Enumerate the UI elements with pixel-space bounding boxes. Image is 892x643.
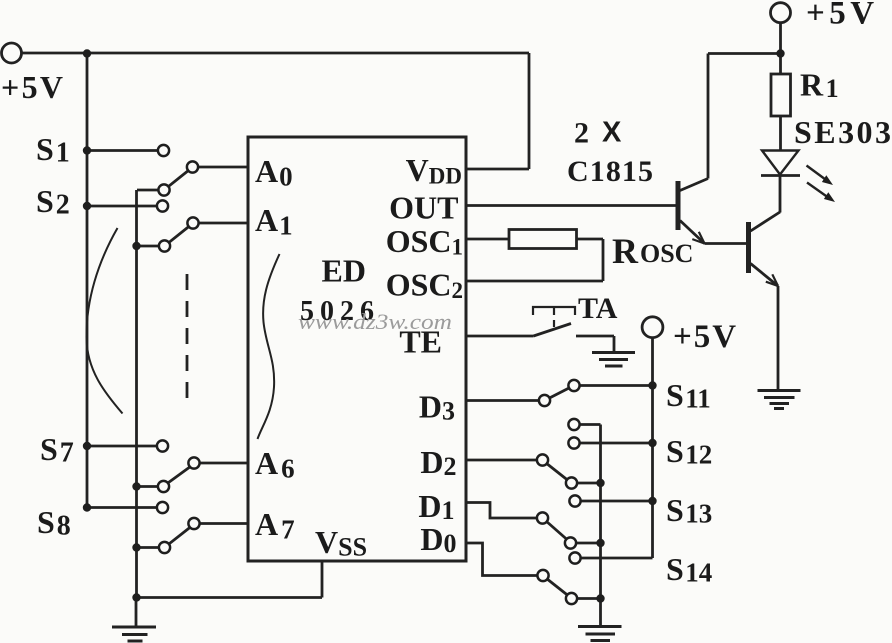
svg-text:A7: A7	[255, 506, 295, 545]
svg-text:S2: S2	[36, 183, 70, 221]
svg-text:VSS: VSS	[315, 524, 367, 562]
svg-text:S13: S13	[666, 492, 712, 529]
svg-text:D3: D3	[419, 389, 455, 426]
svg-text:+5V: +5V	[806, 0, 879, 32]
svg-text:S7: S7	[40, 431, 74, 469]
svg-text:A0: A0	[255, 153, 293, 192]
svg-text:TA: TA	[578, 292, 618, 325]
svg-text:www.dz3w.com: www.dz3w.com	[298, 309, 452, 334]
svg-text:+5V: +5V	[673, 319, 738, 355]
svg-text:S14: S14	[666, 551, 712, 588]
svg-text:ED: ED	[322, 253, 366, 289]
svg-text:OUT: OUT	[389, 190, 458, 226]
svg-text:SE303: SE303	[794, 114, 891, 150]
svg-text:2: 2	[574, 117, 589, 150]
svg-text:OSC: OSC	[640, 239, 693, 268]
svg-text:D1: D1	[418, 488, 454, 525]
svg-text:D0: D0	[420, 521, 456, 558]
svg-text:A6: A6	[255, 445, 295, 484]
svg-text:VDD: VDD	[406, 152, 462, 189]
svg-text:D2: D2	[420, 444, 456, 481]
svg-text:S11: S11	[666, 377, 711, 414]
svg-text:A1: A1	[255, 202, 293, 241]
svg-text:R: R	[612, 231, 639, 271]
svg-text:R1: R1	[800, 67, 839, 104]
svg-text:OSC1: OSC1	[386, 223, 463, 260]
svg-text:C1815: C1815	[567, 155, 653, 188]
svg-text:X: X	[602, 117, 622, 149]
svg-text:OSC2: OSC2	[386, 267, 463, 304]
svg-text:S1: S1	[36, 131, 70, 169]
svg-text:S12: S12	[666, 433, 712, 470]
svg-text:S8: S8	[37, 504, 71, 542]
svg-text:+5V: +5V	[1, 69, 63, 105]
